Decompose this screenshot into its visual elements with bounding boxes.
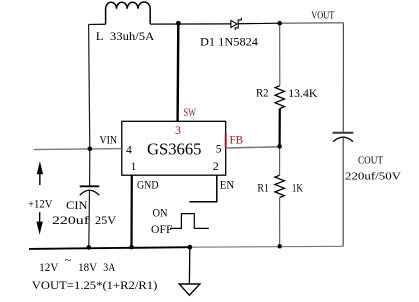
- pulse waveform: [170, 214, 209, 229]
- +12V range arrow down: [39, 212, 41, 222]
- node dot FB: [277, 144, 282, 149]
- ground symbol: [179, 284, 200, 295]
- svg-text:R2: R2: [256, 88, 269, 100]
- wire COUT to bottom rail: [342, 137, 344, 246]
- svg-text:13.4K: 13.4K: [288, 88, 318, 100]
- svg-text:D1 1N5824: D1 1N5824: [200, 37, 258, 49]
- resistor R2 zigzag: [275, 86, 284, 109]
- bottom rail right (thin gray): [190, 245, 343, 248]
- resistor R1 top lead: [279, 146, 281, 175]
- svg-text:12V: 12V: [39, 262, 59, 274]
- pin 5 red edge highlight: [225, 134, 227, 148]
- svg-text:+12V: +12V: [28, 199, 53, 211]
- svg-text:EN: EN: [220, 180, 235, 192]
- wire SW vertical (thick): [176, 23, 179, 121]
- svg-text:SW: SW: [184, 107, 197, 119]
- +12V range arrow up: [39, 174, 41, 185]
- bottom rail left (thick): [29, 247, 190, 249]
- node dot SW top: [176, 21, 181, 26]
- ground stub: [188, 247, 190, 284]
- wire diode cathode to node: [238, 22, 280, 25]
- wire inductor to diode anode: [150, 23, 231, 25]
- node dot rail CIN: [87, 245, 92, 250]
- capacitor COUT curved plate: [333, 137, 353, 141]
- node dot VIN: [88, 147, 93, 152]
- svg-text:1K: 1K: [292, 183, 304, 195]
- wire right vertical down to COUT: [342, 23, 344, 132]
- wire VIN horizontal: [34, 149, 122, 150]
- capacitor COUT top plate: [333, 132, 354, 134]
- svg-text:FB: FB: [230, 135, 244, 147]
- node dot diode out: [277, 21, 282, 26]
- diode D1 schottky cathode bar: [235, 18, 241, 30]
- svg-text:220uf/50V: 220uf/50V: [345, 171, 401, 183]
- capacitor CIN top plate: [80, 185, 100, 187]
- wire GND pin to rail (thick): [130, 175, 133, 247]
- svg-text:4: 4: [126, 145, 132, 157]
- svg-text:R1: R1: [257, 183, 269, 195]
- resistor R1 bottom lead: [279, 197, 281, 246]
- node dot rail GND: [129, 245, 134, 250]
- wire R2 bottom to FB node (thick): [279, 109, 281, 147]
- svg-text:CIN: CIN: [66, 200, 88, 212]
- wire CIN to bottom rail: [88, 191, 91, 248]
- svg-text:2: 2: [213, 161, 219, 173]
- wire FB horizontal: [226, 147, 280, 148]
- wire node to top-right corner: [280, 22, 344, 24]
- svg-text:3: 3: [175, 125, 181, 137]
- svg-text:COUT: COUT: [358, 155, 383, 167]
- svg-text:3A: 3A: [103, 262, 116, 274]
- op IC U1 GS3665 body: [122, 121, 226, 175]
- node dot rail ground stub: [187, 245, 192, 250]
- svg-text:VOUT: VOUT: [311, 11, 334, 22]
- svg-text:GND: GND: [137, 180, 159, 192]
- svg-text:1: 1: [131, 161, 137, 173]
- svg-text:VOUT=1.25*(1+R2/R1): VOUT=1.25*(1+R2/R1): [32, 280, 158, 292]
- svg-text:GS3665: GS3665: [147, 140, 202, 159]
- svg-text:ON: ON: [153, 208, 169, 220]
- svg-text:OFF: OFF: [151, 224, 173, 236]
- wire EN pin down then left: [189, 175, 216, 202]
- svg-text:18V: 18V: [78, 262, 98, 274]
- wire top-left horizontal to inductor: [89, 23, 106, 25]
- svg-text:VIN: VIN: [100, 135, 118, 147]
- wire left vertical from top corner to VIN node: [89, 24, 90, 148]
- resistor R2 top lead: [279, 23, 281, 85]
- svg-text:~: ~: [65, 255, 72, 267]
- node dot rail R1: [278, 244, 282, 248]
- wire VIN node down to CIN: [89, 149, 91, 186]
- svg-text:5: 5: [216, 144, 222, 156]
- resistor R1 zigzag: [275, 175, 284, 197]
- svg-text:220uf: 220uf: [52, 215, 89, 227]
- diode D1 triangle: [231, 20, 237, 27]
- inductor L1 coil: [106, 2, 151, 24]
- svg-text:25V: 25V: [95, 215, 117, 227]
- capacitor CIN curved plate: [80, 190, 100, 195]
- svg-text:L 33uh/5A: L 33uh/5A: [96, 31, 155, 43]
